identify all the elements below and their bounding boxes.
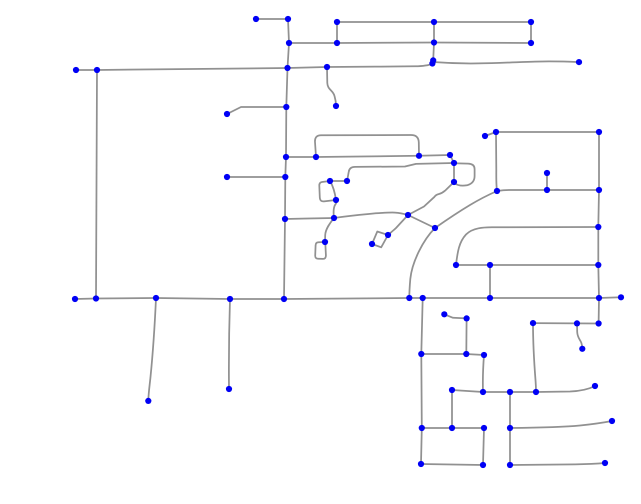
node J3 [493, 129, 499, 135]
wire drop230 [229, 299, 230, 389]
wire row392 c [510, 391, 536, 393]
node B4 [431, 39, 437, 45]
node J2 [482, 133, 488, 139]
wire main road g [423, 297, 490, 299]
wire stub454 [453, 163, 455, 182]
wire arc B [456, 227, 598, 265]
wire x599 e [598, 298, 600, 324]
node P5 [592, 383, 598, 389]
node B6 [528, 40, 534, 46]
node M2 [226, 386, 232, 392]
wire x422 b [420, 354, 423, 428]
wire spur485 [485, 132, 496, 136]
wire x497 up [496, 132, 497, 191]
wire row465 east [510, 463, 605, 465]
node L5 [281, 296, 287, 302]
wire top-left spur [76, 69, 97, 71]
node B8 [429, 60, 435, 66]
wire hook454 [454, 163, 475, 185]
wire loop135 [315, 135, 419, 157]
wire row428 east [510, 421, 612, 428]
node I1 [405, 212, 411, 218]
wire s582 [577, 323, 582, 348]
wire x466 [465, 318, 467, 354]
node B1 [334, 19, 340, 25]
wire spur444 [444, 314, 466, 318]
node D3 [333, 103, 339, 109]
node E4 [447, 152, 453, 158]
wire vertical main x288 g [284, 219, 285, 299]
wire x599 b [597, 190, 600, 227]
wire row68 c [327, 64, 432, 67]
wire small loop [315, 242, 326, 259]
wire x490 [489, 265, 491, 298]
wire x434 down [432, 43, 435, 61]
wire row265 b [490, 264, 598, 266]
node L10 [618, 294, 624, 300]
node F1 [224, 174, 230, 180]
wire row190 b [547, 189, 599, 191]
wire s-curve x327 [327, 67, 336, 106]
node P4 [533, 389, 539, 395]
wire main road c [156, 298, 230, 299]
wire row68 b [288, 67, 328, 68]
wire top spur [256, 18, 288, 20]
node N1 [441, 311, 447, 317]
wire stub337 [336, 22, 338, 43]
wire vertical main x288 e [284, 157, 287, 177]
wire row132 [496, 131, 599, 133]
wire jog450 [450, 155, 454, 163]
node E5 [451, 160, 457, 166]
node I4 [432, 225, 438, 231]
wire wavy row166 [347, 163, 454, 182]
node B5 [528, 19, 534, 25]
node P3 [507, 389, 513, 395]
wire main road a [75, 298, 96, 301]
node N2 [464, 315, 470, 321]
wire row392 b [483, 391, 510, 393]
wire x484 a [483, 355, 484, 392]
wire row22 b [434, 21, 531, 23]
wire x599 c [597, 227, 599, 265]
wire stub547 [546, 173, 548, 190]
wire diamond [372, 232, 388, 248]
node N3 [418, 351, 424, 357]
node L8 [487, 295, 493, 301]
node E6 [451, 179, 457, 185]
node G2 [344, 178, 350, 184]
node K4 [595, 262, 601, 268]
wire x599 a [598, 132, 600, 190]
node G1 [327, 178, 333, 184]
node J6 [544, 187, 550, 193]
node D2 [283, 104, 289, 110]
node A1 [253, 16, 259, 22]
wire main-road wavy b [334, 213, 408, 218]
wire x484 b [483, 428, 484, 465]
wire row107 west [227, 107, 286, 114]
node N4 [463, 351, 469, 357]
wire row43 a [289, 42, 337, 44]
wire main-road wavy a [285, 218, 334, 219]
wire vertical main x288 b [288, 43, 290, 68]
wire quad direct [330, 181, 336, 200]
node A2 [285, 16, 291, 22]
wire diag 408-388 [388, 215, 408, 235]
wire main road e [284, 298, 409, 299]
node B9 [576, 59, 582, 65]
node L1 [72, 296, 78, 302]
node N7 [574, 320, 580, 326]
wire arc 435-409 [409, 228, 435, 298]
wire row43 b [337, 42, 434, 45]
wire row392 a [452, 390, 483, 392]
node B3 [431, 19, 437, 25]
node N9 [579, 346, 585, 352]
node B7 [430, 57, 436, 63]
wire row465 a [421, 464, 483, 465]
node P7 [419, 425, 425, 431]
node P8 [481, 425, 487, 431]
wire row68 a [97, 68, 288, 70]
wire row177 spur [227, 176, 285, 178]
wire drop156 [148, 298, 156, 401]
wire row324 a [533, 322, 577, 324]
node J1 [494, 188, 500, 194]
node K1 [595, 224, 601, 230]
node A3 [286, 40, 292, 46]
wire arc 435-497 [435, 191, 497, 228]
node L3 [153, 295, 159, 301]
node D1 [224, 111, 230, 117]
wire row181 spur [330, 180, 347, 182]
wire curve 325242 [325, 218, 334, 242]
node N8 [596, 320, 602, 326]
node P2 [480, 389, 486, 395]
node I3 [369, 241, 375, 247]
wire row155 c [419, 154, 450, 157]
wire x422 a [421, 298, 422, 354]
wire vertical main x288 f [284, 177, 286, 219]
wire row265 a [456, 264, 490, 266]
node C2 [94, 67, 100, 73]
node L6 [406, 295, 412, 301]
wire row354 b [466, 354, 484, 355]
wire vertical main x288 d [285, 107, 287, 157]
wire row43 c [434, 42, 531, 45]
wire main road d [230, 298, 284, 300]
node J7 [596, 187, 602, 193]
node K3 [487, 262, 493, 268]
wire stub434 [433, 22, 435, 43]
wire stub531 [530, 22, 532, 43]
wire main road b [96, 297, 156, 300]
wire row428 b [452, 427, 484, 429]
wire s-curve 336200 [334, 200, 336, 218]
node L7 [420, 295, 426, 301]
wire curve595 [536, 386, 595, 392]
node P12 [609, 418, 615, 424]
wire wavy row63 east [433, 61, 579, 63]
node P11 [507, 425, 513, 431]
node L4 [227, 296, 233, 302]
node K2 [453, 262, 459, 268]
node J5 [544, 170, 550, 176]
wire x422 c [420, 428, 423, 464]
wire x535 [533, 323, 536, 392]
wire row428 a [422, 427, 452, 429]
wire jog diag 454-408 [408, 182, 454, 215]
node N5 [481, 352, 487, 358]
node C1 [73, 67, 79, 73]
node M1 [145, 398, 151, 404]
node J4 [596, 129, 602, 135]
wire row354 a [421, 353, 466, 355]
node H1 [282, 216, 288, 222]
node N6 [530, 320, 536, 326]
wire main road i [599, 296, 621, 299]
node F2 [282, 174, 288, 180]
wire quad loop [319, 181, 336, 201]
wire row157 b [316, 156, 419, 157]
node P9 [418, 461, 424, 467]
node L9 [596, 295, 602, 301]
wire main road h [490, 297, 599, 299]
node P14 [602, 460, 608, 466]
wire x510 b [509, 428, 511, 465]
node B2 [334, 40, 340, 46]
wire vertical main x288 a [288, 19, 289, 43]
wire row324 b [577, 322, 599, 324]
wire row22 a [337, 21, 434, 23]
node A4 [284, 65, 290, 71]
wire diag 408-435 [408, 215, 435, 228]
wire left vertical x96 [96, 70, 97, 299]
wire x510 a [509, 392, 511, 428]
node E1 [283, 154, 289, 160]
node G3 [333, 197, 339, 203]
node P1 [449, 387, 455, 393]
wire x452 [451, 390, 453, 428]
node H2 [331, 215, 337, 221]
node P10 [480, 462, 486, 468]
node L2 [93, 295, 99, 301]
wire main road f [409, 297, 422, 299]
node P13 [507, 462, 513, 468]
node D4 [324, 64, 330, 70]
wire vertical main x288 c [286, 68, 287, 107]
node E3 [416, 153, 422, 159]
node H3 [322, 239, 328, 245]
node I2 [385, 232, 391, 238]
node E2 [313, 154, 319, 160]
wire row157 a [286, 156, 316, 158]
wire x599 d [597, 265, 600, 298]
node P6 [449, 425, 455, 431]
wire row190 a [497, 190, 547, 191]
